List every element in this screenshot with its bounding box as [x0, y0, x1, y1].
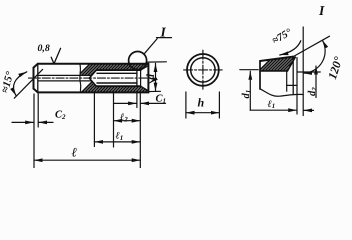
detail inner vertical — [286, 71, 288, 91]
pilot hole lines — [38, 74, 91, 76]
detail leader — [144, 39, 157, 55]
detail circle — [129, 52, 147, 70]
drill cone — [89, 70, 96, 78]
thread minor lines — [97, 72, 137, 74]
detail short horizontal — [287, 84, 297, 86]
overall length dimension line — [34, 159, 140, 161]
svg-text:h: h — [198, 96, 205, 110]
roughness mark — [51, 57, 54, 64]
end view centerline horizontal — [184, 69, 223, 71]
hatch top band — [54, 60, 190, 100]
countersink flare bottom — [141, 86, 149, 91]
dim d extension top — [147, 61, 166, 63]
countersink edge — [140, 70, 142, 86]
15deg construction line — [14, 69, 42, 98]
hole walls — [96, 69, 140, 71]
main view body outline — [34, 64, 149, 93]
l2 dimension line — [114, 120, 141, 122]
detail wavy break — [260, 89, 303, 96]
detail end face extension vertical — [302, 27, 304, 116]
C1 extension lines — [136, 93, 138, 108]
h dimension line — [186, 112, 220, 114]
detail piece bore line — [260, 70, 288, 72]
h extension lines — [185, 92, 187, 118]
detail piece left edge — [259, 61, 261, 89]
75deg leader — [280, 41, 301, 55]
l2 extension line — [113, 93, 115, 147]
thread end line — [136, 70, 138, 86]
l1 extension line — [93, 94, 95, 147]
svg-text:I: I — [160, 25, 167, 40]
l1 detail dimension line — [250, 109, 296, 111]
d inner diagonal arrow — [150, 79, 156, 83]
svg-text:I: I — [318, 3, 325, 18]
svg-text:0,8: 0,8 — [38, 43, 50, 54]
d1 extension line — [240, 69, 258, 71]
120deg slant line — [293, 36, 329, 56]
120deg arc — [304, 40, 326, 73]
end view outer circle — [187, 54, 219, 86]
d2 extension line — [298, 71, 321, 73]
d2 dimension line — [315, 66, 317, 98]
C2 extension lines — [33, 94, 35, 168]
end view centerline vertical — [202, 50, 204, 89]
d1 dimension line — [249, 71, 251, 110]
hatch bottom band — [54, 80, 190, 120]
detail right edge A — [292, 57, 294, 95]
centerline main view — [29, 77, 154, 79]
end view inner circle — [191, 58, 215, 82]
C1 dimension arrows — [114, 102, 137, 104]
l1 dimension line — [94, 141, 140, 143]
C2 dimension arrows — [12, 121, 34, 123]
detail hatch — [236, 54, 352, 94]
15deg arc — [14, 72, 27, 96]
dim d line — [155, 63, 157, 91]
countersink flare top — [141, 66, 149, 71]
detail view piece top slant 75deg face — [260, 57, 293, 61]
detail countersink slant — [288, 57, 296, 71]
d bottom extension — [150, 90, 161, 92]
svg-text:d: d — [145, 74, 157, 80]
section break wavy line — [80, 64, 81, 93]
detail right edge B — [296, 58, 298, 114]
l1 detail outer arrow — [303, 109, 313, 111]
svg-text:ℓ: ℓ — [72, 145, 78, 160]
